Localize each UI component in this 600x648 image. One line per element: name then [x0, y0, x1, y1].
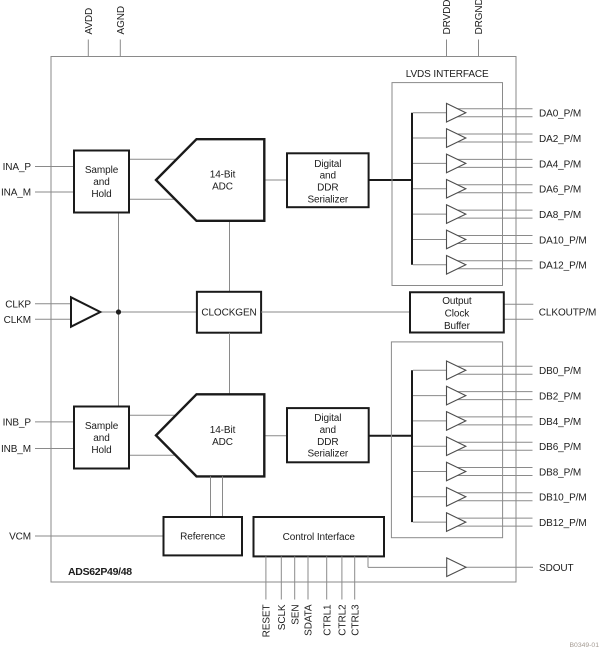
- wire DA10_P/M P output: [448, 234, 533, 236]
- wire ADC B to reference right: [222, 476, 224, 517]
- digital DDR serializer B box: [287, 408, 369, 462]
- wire DA12_P/M P output: [448, 260, 533, 262]
- LVDS buffer DA10_P/M: [447, 230, 466, 249]
- wire bus A to buffer DA0_P/M: [413, 112, 447, 114]
- svg-text:DB12_P/M: DB12_P/M: [539, 518, 587, 529]
- sample-and-hold A box: [74, 151, 129, 213]
- LVDS interface box B: [391, 342, 502, 538]
- svg-text:DA12_P/M: DA12_P/M: [539, 261, 587, 272]
- wire DB6_P/M P output: [448, 441, 533, 443]
- svg-text:DA6_P/M: DA6_P/M: [539, 185, 581, 196]
- wire bus A to buffer DA6_P/M: [413, 188, 447, 190]
- svg-text:RESET: RESET: [262, 605, 273, 638]
- wire ADC A to serializer A: [264, 179, 287, 181]
- svg-text:Sample: Sample: [85, 421, 119, 432]
- wire bus A to buffer DA10_P/M: [413, 238, 447, 240]
- wire VCM input: [35, 535, 164, 537]
- wire S&H A to ADC A lower: [129, 198, 180, 200]
- svg-text:Clock: Clock: [445, 309, 471, 320]
- clock junction node: [116, 309, 121, 314]
- wire DB8_P/M P output: [448, 467, 533, 469]
- wire DA0_P/M P output: [448, 108, 533, 110]
- wire DA6_P/M P output: [448, 184, 533, 186]
- reference box: [164, 517, 243, 555]
- wire bus B to buffer DB4_P/M: [413, 420, 447, 422]
- LVDS buffer DB10_P/M: [447, 488, 466, 507]
- wire DA0_P/M M output: [448, 116, 533, 118]
- svg-text:and: and: [93, 433, 109, 444]
- wire DA4_P/M M output: [448, 166, 533, 168]
- LVDS buffer DA0_P/M: [447, 103, 466, 122]
- clock input buffer: [71, 297, 100, 326]
- wire control pin SCLK: [280, 556, 282, 599]
- LVDS buffer DB4_P/M: [447, 412, 466, 431]
- svg-text:CTRL3: CTRL3: [350, 604, 361, 636]
- DRVDD pin stub: [446, 40, 448, 58]
- wire DA6_P/M M output: [448, 192, 533, 194]
- 14-bit ADC B pentagon: [156, 394, 264, 476]
- LVDS bus A (thick vertical): [411, 113, 413, 265]
- wire DB12_P/M P output: [448, 517, 533, 519]
- wire DA8_P/M M output: [448, 217, 533, 219]
- wire clock buffer to CLOCKGEN: [100, 311, 197, 313]
- SDOUT buffer: [447, 558, 466, 577]
- svg-text:DB8_P/M: DB8_P/M: [539, 467, 581, 478]
- wire CLOCKGEN to output clock buffer: [261, 311, 410, 313]
- svg-text:14-Bit: 14-Bit: [210, 170, 236, 181]
- wire bus A to buffer DA2_P/M: [413, 137, 447, 139]
- wire DA12_P/M M output: [448, 268, 533, 270]
- svg-text:ADC: ADC: [212, 437, 233, 448]
- wire serializer B to LVDS bus B (thick): [369, 435, 412, 437]
- wire DB0_P/M P output: [448, 365, 533, 367]
- LVDS bus B (thick vertical): [411, 370, 413, 522]
- svg-text:14-Bit: 14-Bit: [210, 425, 236, 436]
- svg-text:ADC: ADC: [212, 182, 233, 193]
- wire bus A to buffer DA12_P/M: [413, 264, 447, 266]
- LVDS buffer DA6_P/M: [447, 179, 466, 198]
- svg-text:INB_M: INB_M: [1, 444, 31, 455]
- CLOCKGEN box: [197, 292, 261, 333]
- wire control interface to SDOUT vertical: [367, 556, 369, 567]
- svg-text:DDR: DDR: [317, 437, 338, 448]
- AGND pin stub: [119, 40, 121, 58]
- svg-text:CLKP: CLKP: [5, 299, 31, 310]
- wire bus A to buffer DA4_P/M: [413, 162, 447, 164]
- svg-text:INA_M: INA_M: [1, 188, 31, 199]
- svg-text:CLOCKGEN: CLOCKGEN: [201, 308, 256, 319]
- LVDS buffer DA12_P/M: [447, 256, 466, 275]
- svg-text:DB6_P/M: DB6_P/M: [539, 442, 581, 453]
- svg-text:and: and: [320, 425, 336, 436]
- wire control pin CTRL1: [326, 556, 328, 599]
- wire CLKOUTM: [504, 318, 534, 320]
- wire CLOCKGEN to ADC B: [229, 333, 231, 395]
- wire control pin RESET: [265, 556, 267, 599]
- LVDS buffer DB8_P/M: [447, 462, 466, 481]
- svg-text:DA2_P/M: DA2_P/M: [539, 134, 581, 145]
- wire bus B to buffer DB6_P/M: [413, 445, 447, 447]
- svg-text:CLKM: CLKM: [4, 315, 31, 326]
- wire control pin SDATA: [307, 556, 309, 599]
- LVDS buffer DA8_P/M: [447, 205, 466, 224]
- wire ADC B to reference left: [210, 476, 212, 517]
- wire INA_M input: [35, 191, 74, 193]
- svg-text:Sample: Sample: [85, 165, 119, 176]
- wire ADC A to CLOCKGEN: [229, 221, 231, 292]
- wire ADC B to serializer B: [264, 435, 287, 437]
- wire DA10_P/M M output: [448, 242, 533, 244]
- svg-text:ADS62P49/48: ADS62P49/48: [68, 566, 132, 578]
- wire SDOUT output: [466, 566, 533, 568]
- svg-text:Buffer: Buffer: [444, 321, 471, 332]
- control interface box: [254, 517, 385, 556]
- wire DA2_P/M M output: [448, 141, 533, 143]
- svg-text:Hold: Hold: [91, 189, 111, 200]
- svg-text:VCM: VCM: [9, 532, 31, 543]
- svg-text:AVDD: AVDD: [84, 8, 95, 35]
- wire DB12_P/M M output: [448, 525, 533, 527]
- wire bus A to buffer DA8_P/M: [413, 213, 447, 215]
- chip boundary box: [51, 57, 516, 583]
- digital DDR serializer A box: [287, 153, 369, 207]
- svg-text:INB_P: INB_P: [3, 418, 32, 429]
- wire DA8_P/M P output: [448, 209, 533, 211]
- svg-text:Reference: Reference: [180, 532, 226, 543]
- svg-text:Digital: Digital: [314, 413, 341, 424]
- svg-text:DB0_P/M: DB0_P/M: [539, 366, 581, 377]
- AVDD pin stub: [87, 40, 89, 58]
- wire S&H B to ADC B lower: [129, 454, 180, 456]
- svg-text:and: and: [93, 177, 109, 188]
- svg-text:Hold: Hold: [91, 445, 111, 456]
- wire bus B to buffer DB2_P/M: [413, 395, 447, 397]
- svg-text:DA10_P/M: DA10_P/M: [539, 235, 587, 246]
- wire INA_P input: [35, 166, 74, 168]
- wire to SDOUT buffer: [368, 566, 447, 568]
- wire S&H B to ADC B upper: [129, 414, 180, 416]
- svg-text:Digital: Digital: [314, 159, 341, 170]
- wire DB4_P/M M output: [448, 424, 533, 426]
- svg-text:SDOUT: SDOUT: [539, 563, 574, 574]
- wire INB_P input: [35, 421, 74, 423]
- wire DB4_P/M P output: [448, 416, 533, 418]
- LVDS buffer DB6_P/M: [447, 437, 466, 456]
- svg-text:DDR: DDR: [317, 183, 338, 194]
- LVDS buffer DB2_P/M: [447, 386, 466, 405]
- wire DB0_P/M M output: [448, 373, 533, 375]
- DRGND pin stub: [478, 40, 480, 58]
- svg-text:CLKOUTP/M: CLKOUTP/M: [539, 308, 596, 319]
- svg-text:DA4_P/M: DA4_P/M: [539, 159, 581, 170]
- wire clock vertical S&H A to S&H B: [118, 213, 120, 408]
- svg-text:SDATA: SDATA: [304, 604, 315, 636]
- svg-text:DA0_P/M: DA0_P/M: [539, 109, 581, 120]
- LVDS buffer DA4_P/M: [447, 154, 466, 173]
- LVDS buffer DA2_P/M: [447, 129, 466, 148]
- svg-text:DB4_P/M: DB4_P/M: [539, 417, 581, 428]
- sample-and-hold B box: [74, 407, 129, 469]
- wire DA4_P/M P output: [448, 158, 533, 160]
- svg-text:SCLK: SCLK: [277, 604, 288, 630]
- wire bus B to buffer DB8_P/M: [413, 471, 447, 473]
- svg-text:SEN: SEN: [290, 605, 301, 625]
- wire DB10_P/M P output: [448, 492, 533, 494]
- wire bus B to buffer DB10_P/M: [413, 496, 447, 498]
- wire serializer A to LVDS bus A (thick): [369, 179, 412, 181]
- LVDS buffer DB12_P/M: [447, 513, 466, 532]
- svg-text:AGND: AGND: [116, 6, 127, 35]
- svg-text:LVDS INTERFACE: LVDS INTERFACE: [406, 69, 489, 80]
- wire CLKM input: [35, 318, 71, 320]
- svg-text:DRGND: DRGND: [474, 0, 485, 35]
- wire DB6_P/M M output: [448, 449, 533, 451]
- wire bus B to buffer DB0_P/M: [413, 369, 447, 371]
- svg-text:Output: Output: [442, 296, 472, 307]
- wire control pin SEN: [294, 556, 296, 599]
- wire DA2_P/M P output: [448, 133, 533, 135]
- wire control pin CTRL2: [341, 556, 343, 599]
- wire S&H A to ADC A upper: [129, 158, 180, 160]
- svg-text:DA8_P/M: DA8_P/M: [539, 210, 581, 221]
- svg-text:B0349-01: B0349-01: [570, 642, 600, 648]
- wire DB8_P/M M output: [448, 475, 533, 477]
- svg-text:DB10_P/M: DB10_P/M: [539, 493, 587, 504]
- wire DB2_P/M P output: [448, 391, 533, 393]
- wire control pin CTRL3: [354, 556, 356, 599]
- svg-text:DRVDD: DRVDD: [442, 0, 453, 35]
- svg-text:and: and: [320, 171, 336, 182]
- svg-text:CTRL2: CTRL2: [338, 604, 349, 636]
- wire INB_M input: [35, 448, 74, 450]
- svg-text:Serializer: Serializer: [307, 449, 348, 460]
- 14-bit ADC A pentagon: [156, 139, 264, 221]
- wire bus B to buffer DB12_P/M: [413, 521, 447, 523]
- LVDS buffer DB0_P/M: [447, 361, 466, 380]
- svg-text:Serializer: Serializer: [307, 195, 348, 206]
- svg-text:INA_P: INA_P: [3, 162, 32, 173]
- svg-text:CTRL1: CTRL1: [322, 604, 333, 636]
- svg-text:DB2_P/M: DB2_P/M: [539, 392, 581, 403]
- LVDS interface box A: [392, 83, 503, 286]
- wire CLKOUTP: [504, 303, 534, 305]
- wire DB10_P/M M output: [448, 500, 533, 502]
- svg-text:Control Interface: Control Interface: [283, 532, 356, 543]
- output clock buffer box: [410, 292, 504, 332]
- wire CLKP input: [35, 303, 71, 305]
- wire DB2_P/M M output: [448, 399, 533, 401]
